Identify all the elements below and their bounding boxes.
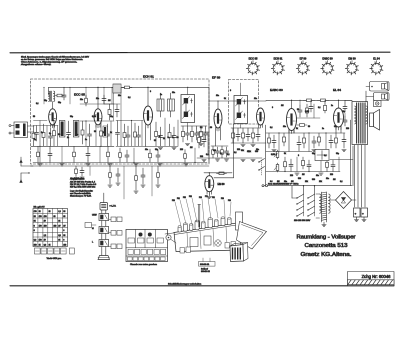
svg-text:6,3: 6,3 [44, 244, 46, 246]
EF89 anode load components [197, 132, 262, 162]
svg-text:0,5M: 0,5M [271, 154, 275, 156]
dial plate on chassis [237, 222, 267, 250]
svg-text:F01: F01 [177, 198, 180, 200]
psu grounds [322, 217, 366, 227]
tone network bus [266, 151, 312, 153]
svg-text:50: 50 [210, 127, 212, 129]
tone potentiometer [274, 163, 279, 172]
svg-text:M: M [92, 228, 94, 230]
FM/IF shielding dash-dot box [31, 79, 210, 164]
tube socket bottom view EL 84 [370, 58, 383, 75]
svg-text:300: 300 [255, 151, 258, 153]
svg-text:10n: 10n [256, 149, 259, 151]
svg-text:EM 80: EM 80 [348, 58, 356, 61]
svg-text:0: 0 [34, 225, 35, 227]
svg-text:0,1: 0,1 [227, 154, 230, 156]
svg-text:95: 95 [63, 235, 65, 237]
pentode V3 EF89 [214, 109, 222, 131]
svg-text:0,1: 0,1 [200, 127, 203, 129]
svg-text:3p: 3p [103, 132, 105, 134]
svg-text:30p: 30p [312, 153, 315, 155]
svg-text:F21: F21 [212, 197, 215, 199]
feedback network row [266, 157, 340, 175]
svg-text:2k: 2k [110, 132, 112, 134]
tube socket bottom view EABC 80 [321, 58, 334, 75]
svg-text:85: 85 [63, 216, 65, 218]
svg-text:60046-31: 60046-31 [200, 264, 210, 266]
wire V1a anode [52, 102, 54, 109]
ECH81 label [143, 75, 154, 79]
mains bus [262, 185, 352, 187]
component labels ECH81 [154, 136, 179, 142]
svg-text:EABC 80: EABC 80 [270, 88, 283, 92]
svg-text:3p: 3p [41, 132, 43, 134]
mains label [268, 182, 298, 185]
svg-text:5n: 5n [172, 137, 174, 139]
tube socket bottom view EF 89 [296, 58, 309, 75]
svg-text:25k: 25k [319, 181, 322, 183]
svg-text:10n: 10n [216, 95, 219, 97]
svg-text:50: 50 [297, 109, 299, 111]
wire V5 anode [336, 100, 341, 133]
svg-text:F65: F65 [183, 197, 186, 199]
svg-text:170: 170 [39, 225, 42, 227]
grid resistor EL84 [317, 99, 329, 102]
svg-text:ECH 81: ECH 81 [143, 75, 154, 79]
svg-text:EM 80: EM 80 [218, 183, 226, 186]
dial drive knob [100, 193, 108, 210]
svg-text:1,2: 1,2 [44, 235, 46, 237]
svg-text:85: 85 [58, 240, 60, 242]
AGC line components below shield box [31, 166, 210, 199]
B+ bus right [266, 100, 352, 101]
magic eye V6 EM80 [205, 176, 214, 195]
tube socket bottom view ECH 81 [271, 58, 284, 75]
svg-text:3p: 3p [34, 139, 36, 141]
svg-text:KW 6,1 MHz MW 1400 kHz: KW 6,1 MHz MW 1400 kHz [70, 187, 95, 189]
svg-text:10n: 10n [80, 99, 83, 101]
mains switch on volume pot [258, 159, 264, 177]
svg-text:6,3: 6,3 [34, 240, 36, 242]
EM80 label [218, 183, 226, 186]
svg-text:2k: 2k [159, 136, 161, 138]
FM coil pack hatched core 2 [73, 121, 79, 138]
svg-text:10n: 10n [145, 149, 148, 151]
decoupling components below FM bus [37, 146, 110, 162]
svg-text:1,2: 1,2 [58, 211, 60, 213]
bottom border rule [10, 285, 394, 287]
chassis bus inside shield box [33, 163, 207, 166]
voltage table [33, 207, 68, 247]
svg-text:F32: F32 [189, 196, 192, 198]
svg-text:85: 85 [34, 221, 36, 223]
FM coil small core 3 [103, 126, 107, 137]
wire V4 anode [289, 100, 294, 151]
svg-text:0,1: 0,1 [270, 127, 273, 129]
svg-text:0,1: 0,1 [234, 152, 237, 154]
svg-text:220: 220 [346, 128, 349, 130]
svg-text:1M: 1M [302, 174, 305, 176]
svg-text:30p: 30p [155, 149, 158, 151]
wire V2 pins [145, 128, 150, 147]
first IF stage components [181, 126, 208, 146]
svg-text:60046-32: 60046-32 [201, 271, 211, 273]
svg-text:Seillauf: Seillauf [201, 268, 208, 270]
EF89 label [212, 76, 221, 80]
coupling cap box [315, 150, 329, 161]
IF transformer can Fi2 [234, 96, 248, 124]
tube socket bottom view ECC 85 [246, 58, 259, 75]
dial tower callout boxes [109, 217, 122, 249]
svg-text:EL 84: EL 84 [333, 88, 341, 92]
feed line y159 [330, 159, 353, 161]
svg-text:0: 0 [63, 240, 64, 242]
svg-text:ECC 85: ECC 85 [74, 93, 85, 97]
IF can wiring stubs [187, 83, 241, 128]
svg-text:Netz 110/125/150/220 V~ 50Hz: Netz 110/125/150/220 V~ 50Hz [268, 182, 298, 185]
svg-text:5k: 5k [296, 128, 298, 130]
svg-text:0,1: 0,1 [220, 153, 223, 155]
svg-text:3p: 3p [76, 134, 78, 136]
svg-text:95: 95 [58, 221, 60, 223]
svg-text:30p: 30p [342, 111, 345, 113]
svg-text:ECC 85: ECC 85 [249, 58, 258, 61]
HT bus wire [49, 87, 210, 95]
svg-text:8: 8 [298, 155, 299, 157]
svg-text:10n: 10n [172, 92, 175, 94]
svg-text:6,3: 6,3 [58, 235, 60, 237]
svg-text:UKW: UKW [92, 215, 97, 217]
svg-text:Raumklang - Vollsuper: Raumklang - Vollsuper [297, 235, 356, 241]
chassis deck and front face [174, 223, 241, 254]
svg-text:Chassis von unten gesehen: Chassis von unten gesehen [130, 263, 158, 266]
EL84 label [333, 88, 341, 92]
svg-text:10n: 10n [316, 175, 319, 177]
triode V4 EABC80 [287, 109, 297, 134]
IF transformer can Fi1 [181, 95, 195, 123]
HT rail 2 [352, 146, 354, 186]
power transformer [316, 192, 330, 222]
IF can 2 shielding dash-dot box [229, 80, 259, 125]
jack wiring [366, 87, 374, 103]
pickup terminal arrow [20, 172, 30, 182]
svg-text:1M: 1M [281, 105, 284, 107]
component value labels FM [34, 131, 112, 141]
dial tower base [98, 256, 110, 260]
svg-text:220: 220 [237, 149, 240, 151]
right rail from detector [265, 125, 267, 186]
svg-text:0,1: 0,1 [128, 97, 131, 99]
svg-text:50: 50 [33, 116, 35, 118]
chassis callout leader lines [172, 196, 231, 226]
svg-text:8: 8 [150, 91, 151, 93]
svg-text:+: + [355, 212, 357, 216]
dial lamp terminal arrow [20, 157, 33, 166]
svg-text:0,1: 0,1 [318, 107, 321, 109]
AF coupling network row [266, 132, 346, 151]
svg-text:170: 170 [39, 216, 42, 218]
svg-text:1M: 1M [108, 100, 111, 102]
audio line to EM80 [214, 124, 234, 178]
svg-text:300: 300 [200, 156, 203, 158]
FM upper components [55, 87, 106, 106]
dial lamp box [374, 101, 382, 107]
detector network [231, 128, 266, 147]
svg-text:0,5M: 0,5M [305, 111, 309, 113]
mixer mesh wires [116, 87, 178, 146]
svg-text:30p: 30p [334, 126, 337, 128]
AM oscillator coil cans [157, 93, 175, 117]
mid components right [296, 100, 347, 127]
connection panel drawing [126, 230, 168, 262]
rectifier bridge [330, 192, 356, 209]
svg-text:ECH 81: ECH 81 [274, 58, 283, 61]
svg-text:10n: 10n [283, 126, 286, 128]
voltage selector [294, 194, 315, 222]
triode V1b ECC85 [94, 109, 102, 128]
FM coil pack hatched core 1 [59, 121, 65, 138]
svg-text:30p: 30p [110, 116, 113, 118]
svg-text:220: 220 [180, 149, 183, 151]
svg-text:3p: 3p [49, 133, 51, 135]
svg-text:1M: 1M [333, 179, 336, 181]
tuning knob bracket left [165, 233, 176, 244]
output transformer block on chassis [230, 243, 248, 262]
svg-text:EL 84: EL 84 [373, 58, 380, 61]
oscillator coil box [113, 84, 121, 93]
mixer grid components [116, 120, 143, 147]
svg-text:Zchg Nr: 60046: Zchg Nr: 60046 [362, 274, 392, 279]
svg-text:5k: 5k [284, 153, 286, 155]
triode V1a ECC85 [49, 109, 57, 128]
svg-text:8: 8 [272, 107, 273, 109]
svg-text:5n: 5n [168, 137, 170, 139]
long vertical screen rail [208, 87, 210, 162]
svg-text:95: 95 [63, 211, 65, 213]
imprint text [168, 283, 202, 286]
svg-text:85: 85 [49, 244, 51, 246]
svg-text:EF 89: EF 89 [212, 76, 221, 80]
pentagrid V2 ECH81 [144, 106, 153, 128]
svg-text:10n: 10n [326, 178, 329, 180]
set title text [297, 235, 356, 259]
svg-text:≈ 1,7A: ≈ 1,7A [110, 205, 117, 208]
svg-text:1n: 1n [67, 137, 69, 139]
svg-text:50: 50 [58, 134, 60, 136]
svg-text:250: 250 [34, 244, 37, 246]
parts legend text [70, 178, 97, 198]
svg-text:85: 85 [49, 211, 51, 213]
svg-text:2n: 2n [331, 105, 333, 107]
ECC85 label [74, 93, 85, 97]
svg-text:0: 0 [34, 230, 35, 232]
svg-text:2n: 2n [160, 94, 162, 96]
svg-text:Tabelle UKW gem.: Tabelle UKW gem. [47, 258, 62, 260]
svg-text:F60: F60 [228, 200, 231, 202]
lower row components mid box [119, 148, 196, 163]
svg-text:Skalenlampen 7V 0,3A: Skalenlampen 7V 0,3A [70, 195, 92, 198]
svg-text:30p: 30p [336, 153, 339, 155]
filter capacitors [354, 208, 368, 217]
svg-text:0,1: 0,1 [36, 103, 39, 105]
revision note text block [21, 56, 89, 67]
svg-text:F20: F20 [221, 198, 224, 200]
svg-text:10n: 10n [254, 98, 257, 100]
svg-text:250: 250 [44, 225, 47, 227]
svg-text:10n: 10n [96, 98, 99, 100]
oscillator band components [104, 87, 120, 121]
wire V2 anode [147, 87, 149, 106]
loudspeaker [370, 110, 380, 131]
svg-text:250: 250 [54, 225, 57, 227]
FM antenna coil L1 [49, 91, 55, 102]
svg-text:220: 220 [330, 174, 333, 176]
FM tuner component row [32, 120, 111, 163]
antenna input sockets and coupling transformer [9, 122, 34, 138]
selector wiring [262, 185, 315, 198]
speaker jack box 2 [374, 93, 390, 101]
svg-text:95: 95 [34, 216, 36, 218]
wire V3 anode [216, 101, 221, 146]
scattered component value labels [33, 90, 349, 177]
AF labels [270, 178, 343, 183]
svg-text:F14: F14 [199, 197, 202, 199]
dial cord pulleys [99, 214, 109, 247]
svg-text:1M: 1M [190, 147, 193, 149]
svg-text:30p: 30p [58, 102, 61, 104]
pentode V5 EL84 [334, 108, 344, 130]
FM section lower bus [31, 145, 114, 147]
svg-text:250: 250 [63, 244, 66, 246]
detector labels [200, 150, 258, 158]
svg-text:30: 30 [94, 131, 96, 133]
svg-text:0,1: 0,1 [206, 154, 209, 156]
svg-text:95: 95 [39, 211, 41, 213]
svg-text:50: 50 [177, 137, 179, 139]
EABC80 label [270, 88, 283, 92]
svg-text:F71: F71 [205, 196, 208, 198]
output transformer core [352, 102, 368, 145]
svg-text:0,1: 0,1 [340, 181, 343, 183]
top border rule [10, 51, 390, 54]
svg-text:Canzonetta 513: Canzonetta 513 [305, 243, 348, 249]
svg-text:30p: 30p [70, 116, 73, 118]
svg-text:L: L [92, 242, 94, 244]
demodulator diode tube [257, 108, 265, 128]
svg-text:50: 50 [308, 126, 310, 128]
svg-text:0,5M: 0,5M [92, 116, 96, 118]
chassis dimension notes [199, 258, 216, 273]
table caption [47, 258, 62, 260]
dial tower shaft [102, 210, 106, 256]
svg-text:0,1: 0,1 [324, 155, 327, 157]
tubes on chassis deck [178, 205, 243, 233]
volume potentiometer [274, 150, 279, 159]
IF B+ bus [209, 100, 266, 101]
ECH81 cathode components [155, 118, 179, 150]
HT rail 1 [350, 120, 352, 186]
speaker jack box 1 [370, 82, 390, 92]
svg-text:500: 500 [298, 178, 301, 180]
dial tower top label [92, 205, 116, 244]
svg-text:170: 170 [34, 211, 37, 213]
svg-text:EABC 80: EABC 80 [322, 58, 333, 61]
svg-text:Angaben ohne Gew.: Angaben ohne Gew. [21, 63, 52, 66]
svg-text:1n: 1n [85, 139, 87, 141]
svg-text:10n: 10n [247, 151, 250, 153]
svg-text:85: 85 [54, 216, 56, 218]
svg-text:220: 220 [290, 175, 293, 177]
svg-text:10n: 10n [118, 95, 121, 97]
FM tuner riser wires [34, 87, 115, 126]
speaker return rails [355, 145, 366, 207]
svg-text:500: 500 [312, 179, 315, 181]
UKW pointer callout [85, 223, 96, 228]
screen resistor [303, 99, 315, 102]
svg-text:5k: 5k [224, 98, 226, 100]
panel caption [130, 263, 158, 266]
hatched revision strip [348, 280, 395, 285]
svg-text:EF 89: EF 89 [300, 58, 307, 61]
EM80 wiring [204, 172, 232, 199]
tube socket bottom view EM 80 [345, 58, 358, 75]
wire V1b anode [97, 87, 99, 108]
svg-text:300: 300 [213, 150, 216, 152]
svg-text:170: 170 [44, 216, 47, 218]
svg-text:Rö a g2 k f U: Rö a g2 k f U [34, 207, 46, 209]
svg-text:Graetz KG.Altena.: Graetz KG.Altena. [301, 252, 352, 258]
svg-text:110 125 150 220V: 110 125 150 220V [294, 220, 311, 222]
svg-text:25k: 25k [305, 181, 308, 183]
svg-text:F10: F10 [172, 200, 175, 202]
svg-text:50: 50 [154, 140, 156, 142]
svg-text:Schaltbildänderungen vorbehalt: Schaltbildänderungen vorbehalten [168, 283, 202, 286]
table footer boxes [35, 248, 75, 254]
EM80 grid resistor [217, 172, 227, 175]
svg-text:2n: 2n [322, 128, 324, 130]
svg-text:0: 0 [63, 230, 64, 232]
resistor R osc [122, 86, 132, 89]
svg-text:85: 85 [39, 244, 41, 246]
svg-text:170: 170 [39, 240, 42, 242]
svg-text:30p: 30p [44, 100, 47, 102]
svg-text:8: 8 [230, 90, 231, 92]
svg-text:50k: 50k [241, 150, 244, 152]
drawing number box [348, 272, 395, 286]
EF89 cathode network [211, 146, 229, 161]
svg-text:2k: 2k [163, 138, 165, 140]
svg-text:+: + [362, 212, 364, 216]
top components right [309, 100, 352, 113]
